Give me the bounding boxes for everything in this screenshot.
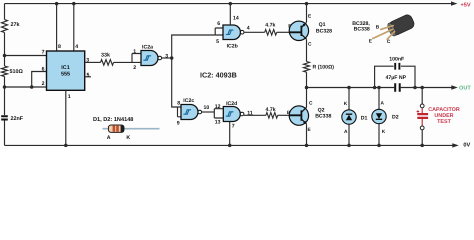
wire 555 pin 8 from top rail xyxy=(56,4,58,51)
resistor 4.7k (top) xyxy=(265,30,277,36)
top +5V supply rail xyxy=(5,3,453,5)
junction D2 on 0V rail xyxy=(377,144,381,148)
svg-text:D1, D2: 1N4148: D1, D2: 1N4148 xyxy=(93,117,133,123)
IC2b output inversion bubble xyxy=(240,30,244,34)
svg-text:C: C xyxy=(308,42,312,48)
wire bottom test terminal to 0V rail xyxy=(421,130,423,146)
resistor 27k xyxy=(2,20,8,33)
left vertical rail wire xyxy=(4,4,6,146)
wire 4.7k to Q1 base xyxy=(277,31,290,33)
junction 100nF right riser on OUT rail xyxy=(413,86,417,90)
svg-text:6: 6 xyxy=(217,21,220,27)
junction pin 1 on 0V rail xyxy=(64,144,68,148)
wire IC2d output to 4.7k xyxy=(244,114,266,116)
resistor R 100 ohm xyxy=(304,62,310,73)
junction Q1 emitter on +5V rail xyxy=(305,2,309,6)
wire 4.7k to Q2 base xyxy=(278,114,290,116)
svg-text:3: 3 xyxy=(86,57,89,63)
svg-text:TEST: TEST xyxy=(437,119,451,125)
svg-text:BC338: BC338 xyxy=(315,114,331,120)
svg-text:7: 7 xyxy=(232,124,235,130)
wire IC2b output to 4.7k xyxy=(244,31,265,33)
IC2d schmitt-trigger symbol xyxy=(226,112,234,116)
svg-text:IC1: IC1 xyxy=(61,65,69,71)
resistor 33k xyxy=(101,60,114,66)
svg-text:OUT: OUT xyxy=(459,85,471,91)
IC2c output inversion bubble xyxy=(198,110,202,114)
junction test capacitor on OUT rail xyxy=(420,86,424,90)
NAND gate IC2d body xyxy=(223,107,240,122)
0V rail arrowhead xyxy=(452,143,459,147)
svg-text:9: 9 xyxy=(177,121,180,127)
node IC2a output branch junction xyxy=(170,56,174,60)
junction D1 on OUT rail xyxy=(347,86,351,90)
wire 33k to IC2a inputs xyxy=(114,61,132,63)
IC2b input tie bar and input stubs xyxy=(215,28,223,35)
diode D1 (cathode up) xyxy=(342,110,356,124)
svg-text:1: 1 xyxy=(133,49,136,55)
svg-text:C: C xyxy=(309,100,313,106)
node pin7 junction on left rail xyxy=(3,54,7,58)
svg-text:A: A xyxy=(344,129,348,135)
svg-text:D2: D2 xyxy=(392,115,399,121)
svg-text:4.7k: 4.7k xyxy=(265,23,275,29)
NAND gate IC2c body xyxy=(181,105,198,120)
junction 100nF left riser on OUT rail xyxy=(373,86,377,90)
junction pin6/pin2 tie xyxy=(30,85,34,89)
wire 555 pin 1 to 0V rail xyxy=(65,90,67,145)
TO-92 package illustration body xyxy=(386,13,416,37)
svg-text:BC338: BC338 xyxy=(354,27,370,33)
svg-text:6: 6 xyxy=(42,67,45,73)
svg-text:Q1: Q1 xyxy=(319,22,326,28)
1N4148 package body xyxy=(108,125,124,132)
junction D1 on 0V rail xyxy=(347,144,351,148)
svg-text:IC2b: IC2b xyxy=(227,43,238,49)
wire Q2 collector up to OUT rail xyxy=(306,88,308,108)
junction on top rail for 555 pin 8 xyxy=(55,2,59,6)
svg-text:IC2c: IC2c xyxy=(183,98,194,104)
svg-text:1: 1 xyxy=(68,94,71,100)
svg-text:4: 4 xyxy=(75,44,78,50)
svg-text:2: 2 xyxy=(42,81,45,87)
svg-text:0V: 0V xyxy=(463,142,470,148)
transistor Q2 BC338 xyxy=(289,106,308,125)
svg-text:5: 5 xyxy=(87,72,90,78)
junction test capacitor on 0V rail xyxy=(420,144,424,148)
junction D2 on OUT rail xyxy=(377,86,381,90)
junction R/Q2 collector on OUT rail xyxy=(305,86,309,90)
NAND gate IC2b body xyxy=(223,25,240,40)
node pin2 junction on left rail xyxy=(3,85,7,89)
wire 555 pin 3 output xyxy=(85,61,101,63)
capacitor under test (red, polarised) xyxy=(417,108,429,126)
svg-text:555: 555 xyxy=(61,72,70,78)
svg-text:R (100Ω): R (100Ω) xyxy=(313,64,335,70)
IC2b schmitt-trigger symbol xyxy=(226,30,234,34)
svg-text:BC328: BC328 xyxy=(316,29,332,35)
svg-text:13: 13 xyxy=(215,120,221,126)
svg-text:47µF NP: 47µF NP xyxy=(386,75,407,81)
bottom 0V rail xyxy=(5,144,454,146)
pin 5 stub wire xyxy=(85,76,91,78)
wire IC2c output to IC2d inputs xyxy=(202,111,215,113)
IC1 555 timer body xyxy=(47,51,85,90)
wire Q1 emitter to +5V rail xyxy=(306,4,308,22)
svg-text:K: K xyxy=(382,129,386,135)
resistor 510ohm xyxy=(2,66,8,77)
IC2d output inversion bubble xyxy=(240,112,244,116)
diode D2 (anode up) xyxy=(372,109,386,123)
svg-text:+5V: +5V xyxy=(461,2,471,8)
wire D1 branch xyxy=(348,88,350,146)
transistor Q1 BC328 xyxy=(289,21,308,40)
svg-text:K: K xyxy=(344,101,348,107)
svg-text:B: B xyxy=(376,24,380,30)
svg-text:4: 4 xyxy=(247,25,250,31)
resistor 4.7k (bottom) xyxy=(266,113,278,119)
svg-text:Q2: Q2 xyxy=(318,107,325,113)
wire IC2a output to branch node xyxy=(162,57,172,59)
wire R to OUT rail xyxy=(306,72,308,87)
svg-text:10: 10 xyxy=(204,105,210,111)
wire D2 branch xyxy=(378,88,380,146)
svg-text:8: 8 xyxy=(58,44,61,50)
svg-text:A: A xyxy=(107,135,111,141)
svg-text:14: 14 xyxy=(233,16,239,22)
svg-text:27k: 27k xyxy=(11,22,20,28)
wire Q2 emitter to 0V rail xyxy=(306,124,308,145)
IC2a input tie bar and input stubs xyxy=(132,54,141,63)
IC2a output inversion bubble xyxy=(158,56,162,60)
svg-text:12: 12 xyxy=(215,104,221,110)
svg-text:22nF: 22nF xyxy=(11,116,24,122)
svg-text:IC2a: IC2a xyxy=(142,45,153,51)
IC2a schmitt-trigger symbol xyxy=(143,56,151,60)
wire branch up to IC2b inputs xyxy=(172,35,216,58)
junction on top rail for IC2 pin 14 xyxy=(229,2,233,6)
top test terminal circle xyxy=(420,104,424,108)
bottom test terminal circle xyxy=(420,126,424,130)
+5V rail arrowhead xyxy=(451,1,458,5)
NAND gate IC2a body xyxy=(141,51,158,66)
IC2d input tie bar and input stubs xyxy=(214,109,223,118)
wire IC2 pin 14 from top rail xyxy=(229,4,231,25)
capacitor 22nF plates xyxy=(1,116,8,119)
svg-text:3: 3 xyxy=(165,54,168,60)
wire Q1 collector down to R xyxy=(306,40,308,62)
OUT output rail wire xyxy=(307,87,453,89)
svg-text:5: 5 xyxy=(216,39,219,45)
1N4148 package leads xyxy=(103,128,160,130)
svg-text:D1: D1 xyxy=(361,115,368,121)
wire IC2 pin 7 to 0V rail xyxy=(229,122,231,146)
IC2c input tie bar and input stubs xyxy=(178,107,182,117)
svg-text:33k: 33k xyxy=(101,53,110,59)
wire 555 pin 2 to left rail xyxy=(5,86,47,88)
wire OUT rail to top test terminal xyxy=(421,88,423,105)
svg-text:CAPACITOR: CAPACITOR xyxy=(428,107,460,113)
wire branch down to IC2c inputs xyxy=(172,58,178,107)
svg-text:100nF: 100nF xyxy=(389,56,404,62)
svg-text:8: 8 xyxy=(177,100,180,106)
OUT rail arrowhead xyxy=(451,85,458,89)
wire 555 pin 7 to left rail xyxy=(5,55,47,57)
svg-text:IC2d: IC2d xyxy=(226,101,237,107)
wire 555 pin 4 from top rail xyxy=(73,4,75,51)
svg-text:7: 7 xyxy=(42,50,45,56)
svg-text:4.7k: 4.7k xyxy=(266,107,276,113)
svg-text:C: C xyxy=(387,39,391,45)
svg-text:510Ω: 510Ω xyxy=(10,69,24,75)
wire 100nF bypass loop xyxy=(375,66,415,87)
capacitor 47uF NP plates (in series with OUT rail) xyxy=(395,83,400,91)
svg-text:2: 2 xyxy=(133,65,136,71)
svg-text:A: A xyxy=(381,101,385,107)
svg-text:K: K xyxy=(126,135,130,141)
wire 555 pin 6 tied down to pin 2 wire xyxy=(32,72,47,88)
TO-92 leads xyxy=(373,26,395,40)
svg-text:IC2: 4093B: IC2: 4093B xyxy=(200,70,237,79)
junction on top rail for 555 pin 4 xyxy=(72,2,76,6)
IC2c schmitt-trigger symbol xyxy=(183,110,191,114)
junction IC2 pin 7 on 0V rail xyxy=(228,144,232,148)
capacitor 100nF plates xyxy=(395,63,399,70)
junction Q2 emitter on 0V rail xyxy=(305,144,309,148)
